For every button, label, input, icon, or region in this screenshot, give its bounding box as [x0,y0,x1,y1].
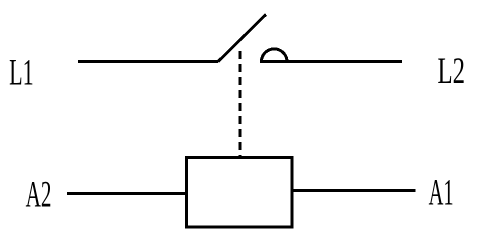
coil K1 box [187,158,292,228]
svg-text:A1: A1 [429,172,454,213]
wire A2 to coil [67,192,186,195]
contact actuator semicircle [261,49,287,62]
dashed mechanical link wire [239,51,242,157]
svg-text:A2: A2 [26,173,52,215]
svg-text:L2: L2 [438,50,466,91]
wire coil to A1 [292,189,416,192]
switch S1 blade (normally-open contact) [218,15,266,62]
svg-text:L1: L1 [9,52,34,93]
wire switch to L2 [260,60,402,63]
wire L1 to switch pivot [78,60,218,63]
